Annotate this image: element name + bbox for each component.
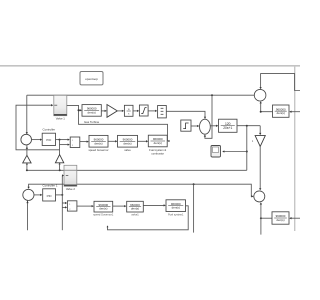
svg-text:Fuel system1: Fuel system1: [168, 212, 184, 216]
svg-text:20s+1: 20s+1: [223, 126, 232, 130]
svg-text:den(s): den(s): [172, 206, 180, 210]
svg-text:Valve 2: Valve 2: [66, 187, 76, 191]
svg-text:den(s): den(s): [276, 218, 284, 222]
svg-text:openloop: openloop: [85, 77, 98, 81]
svg-text:PID: PID: [46, 138, 52, 142]
svg-text:Valve 1: Valve 1: [56, 116, 66, 120]
svg-text:combustor: combustor: [151, 151, 164, 155]
svg-text:Controller: Controller: [43, 128, 56, 132]
svg-text:den(s): den(s): [99, 207, 107, 211]
svg-text:PID: PID: [47, 194, 53, 198]
svg-text:speed Governor: speed Governor: [88, 148, 108, 152]
svg-text:den(s): den(s): [88, 110, 96, 114]
svg-text:Controller 1: Controller 1: [43, 183, 58, 187]
svg-text:speed Governor1: speed Governor1: [93, 213, 114, 217]
svg-text:den(s): den(s): [277, 111, 285, 115]
svg-text:den(s): den(s): [123, 141, 131, 145]
svg-text:Gas Turbine: Gas Turbine: [84, 120, 100, 124]
svg-text:den(s): den(s): [131, 207, 139, 211]
svg-text:den(s): den(s): [94, 141, 102, 145]
svg-text:den(s): den(s): [154, 141, 162, 145]
svg-text:valve: valve: [124, 148, 131, 152]
svg-text:valve1: valve1: [131, 213, 139, 217]
